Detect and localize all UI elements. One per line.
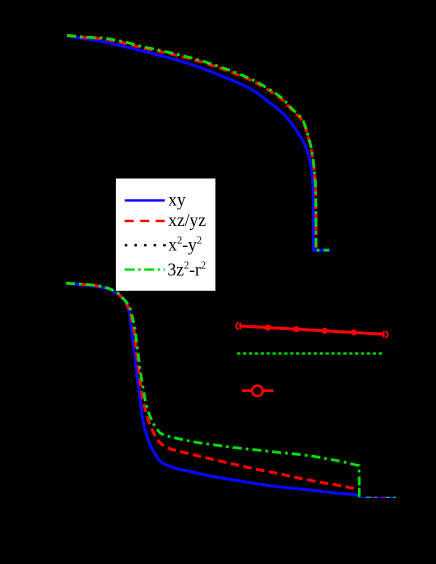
inset: green dashed horizontal line — [237, 352, 384, 354]
bottom panel: blue solid xy curve — [66, 284, 360, 496]
bottom panel: thin mixed tail where all curves overlap — [360, 496, 397, 498]
legend sample: red dashed — [125, 220, 165, 222]
top panel: red dashed xz/yz curve — [67, 36, 316, 251]
inset: red line with filled circle markers and end caps — [240, 326, 384, 334]
legend sample: black dotted — [126, 244, 165, 247]
bottom panel: red dashed xz/yz curve — [66, 283, 354, 488]
top panel: blue solid xy curve — [67, 36, 331, 250]
svg-text:xy: xy — [168, 190, 186, 210]
svg-text:xz/yz: xz/yz — [168, 210, 206, 230]
legend sample: blue solid — [125, 199, 165, 201]
bottom panel: green drop base segment — [358, 488, 361, 498]
inset: red open-circle legend marker with line — [242, 389, 274, 392]
legend sample: green dash-dot — [125, 268, 165, 270]
top panel: green dash-dot 3z2-r2 curve — [67, 35, 329, 250]
bottom panel: green dash-dot 3z2-r2 curve — [66, 283, 359, 497]
legend box — [116, 179, 215, 291]
